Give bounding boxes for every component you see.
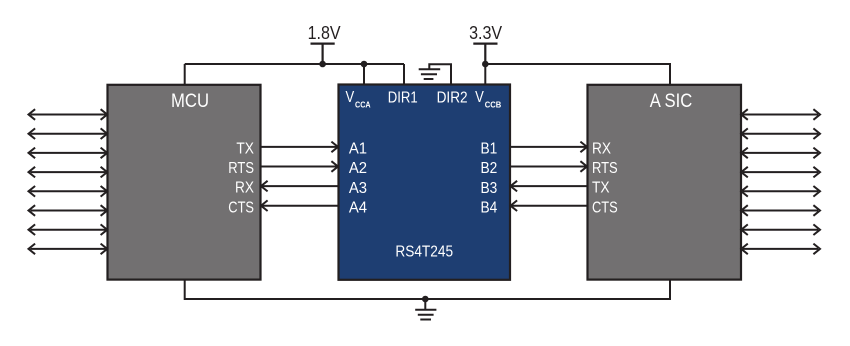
wire MCU bus arrow L3	[29, 148, 108, 159]
svg-text:DIR1: DIR1	[388, 90, 418, 107]
svg-text:TX: TX	[592, 180, 610, 197]
ground symbol G2	[415, 299, 436, 320]
junction node VCCA	[361, 61, 368, 68]
svg-text:V: V	[346, 89, 355, 106]
svg-text:CTS: CTS	[592, 199, 618, 216]
wire ASIC bus arrow R5	[741, 186, 820, 197]
svg-text:B4: B4	[481, 199, 498, 216]
wire ASIC bus arrow R6	[741, 205, 820, 216]
wire ASIC bus arrow R2	[741, 128, 820, 139]
wire ASIC bus arrow R4	[741, 167, 820, 178]
wire VCCB stub	[484, 64, 486, 85]
ASIC block	[588, 85, 742, 280]
wire B2 to RTS	[510, 161, 587, 172]
wire MCU bus arrow L8	[29, 244, 108, 255]
wire ASIC bus arrow R7	[741, 224, 820, 235]
wire MCU bus arrow L7	[29, 224, 108, 235]
svg-text:TX: TX	[236, 141, 254, 158]
wire A4 to CTS	[261, 200, 339, 211]
wire DIR1 stub	[403, 64, 405, 85]
svg-text:A1: A1	[349, 141, 367, 158]
wire ASIC bus arrow R1	[741, 109, 820, 120]
svg-text:B3: B3	[481, 180, 498, 197]
wire MCU top stub	[184, 64, 186, 85]
svg-text:RTS: RTS	[228, 160, 254, 177]
svg-text:RTS: RTS	[592, 160, 618, 177]
power symbol 3.3V	[473, 44, 497, 64]
svg-text:CTS: CTS	[228, 199, 254, 216]
svg-text:3.3V: 3.3V	[469, 23, 502, 43]
wire MCU bus arrow L4	[29, 167, 108, 178]
power symbol 1.8V	[311, 44, 335, 64]
svg-text:RX: RX	[235, 180, 254, 197]
wire ground rail	[185, 279, 670, 299]
IC U1 RS4T245	[339, 85, 511, 280]
svg-text:CCB: CCB	[485, 101, 502, 110]
ground symbol G1	[419, 69, 441, 79]
svg-text:MCU: MCU	[171, 91, 209, 112]
svg-text:1.8V: 1.8V	[308, 23, 341, 43]
junction node 1.8V	[319, 61, 326, 68]
svg-text:CCA: CCA	[355, 101, 371, 110]
svg-text:B2: B2	[481, 160, 498, 177]
wire DIR2 stub	[429, 64, 451, 85]
wire CTS to B4	[511, 200, 588, 211]
junction node VCCB	[482, 61, 489, 68]
svg-text:V: V	[475, 89, 484, 106]
wire TX to A1	[261, 142, 339, 153]
wire MCU bus arrow L5	[29, 186, 108, 197]
svg-text:A4: A4	[349, 199, 367, 216]
wire ASIC bus arrow R3	[741, 148, 820, 159]
svg-text:A SIC: A SIC	[650, 91, 693, 112]
svg-text:A2: A2	[349, 160, 367, 177]
wire ASIC bus arrow R8	[741, 244, 820, 255]
pin label VCCA	[346, 89, 371, 109]
svg-text:RS4T245: RS4T245	[395, 243, 453, 260]
svg-text:RX: RX	[592, 141, 611, 158]
svg-text:B1: B1	[481, 141, 498, 158]
wire MCU bus arrow L2	[29, 128, 108, 139]
wire MCU bus arrow L6	[29, 205, 108, 216]
pin label VCCB	[475, 89, 501, 109]
svg-text:A3: A3	[349, 180, 367, 197]
wire 3.3V rail to ASIC	[485, 64, 670, 85]
wire 1.8V rail	[185, 63, 404, 65]
svg-text:DIR2: DIR2	[437, 90, 468, 107]
junction node GND	[422, 296, 429, 303]
wire B1 to RX	[510, 142, 587, 153]
MCU block	[108, 85, 261, 280]
wire MCU bus arrow L1	[29, 109, 108, 120]
wire RTS to A2	[261, 161, 339, 172]
wire VCCA stub	[363, 64, 365, 85]
wire TX to B3	[511, 181, 588, 192]
wire A3 to RX	[261, 181, 339, 192]
